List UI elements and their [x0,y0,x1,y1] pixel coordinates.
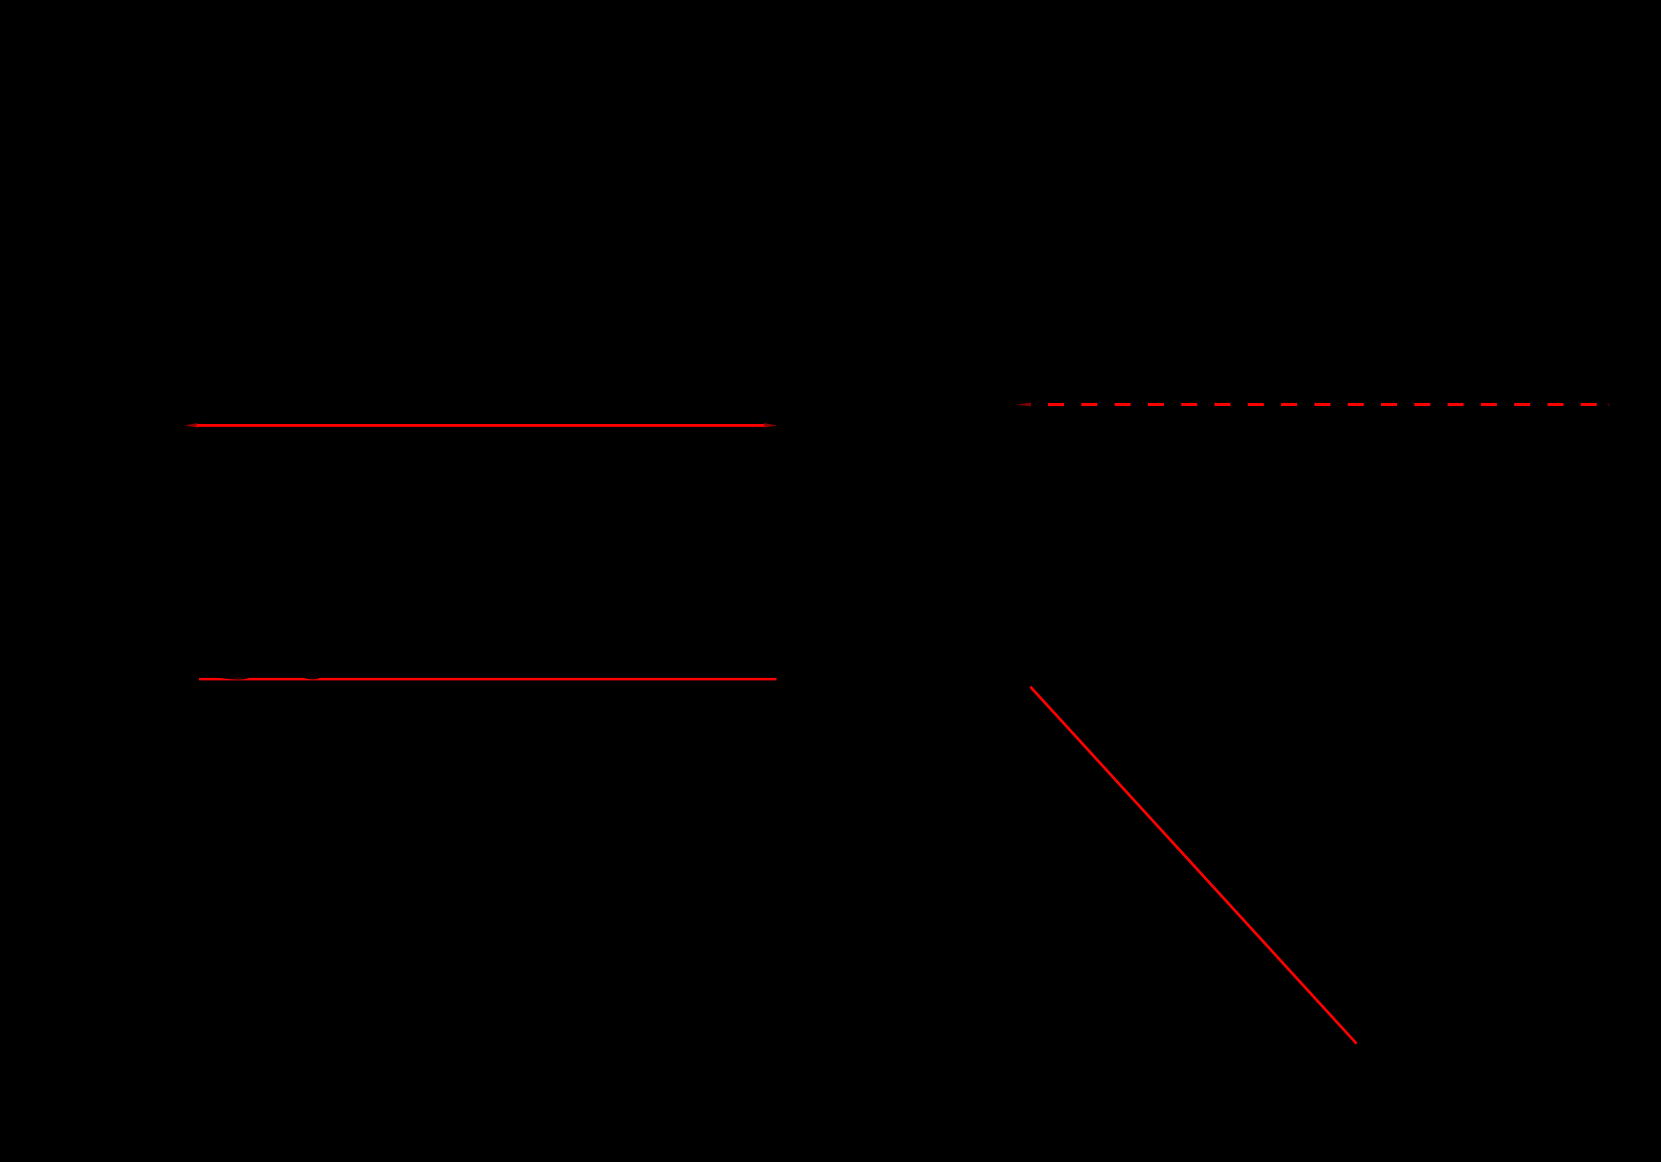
dashed level line (arrowed) [1016,403,1610,407]
lower level line [199,678,777,681]
black wavefunction overlap on lower line [202,677,320,679]
diagonal line [1030,687,1356,1044]
upper level line (double-headed arrow) [184,423,777,428]
